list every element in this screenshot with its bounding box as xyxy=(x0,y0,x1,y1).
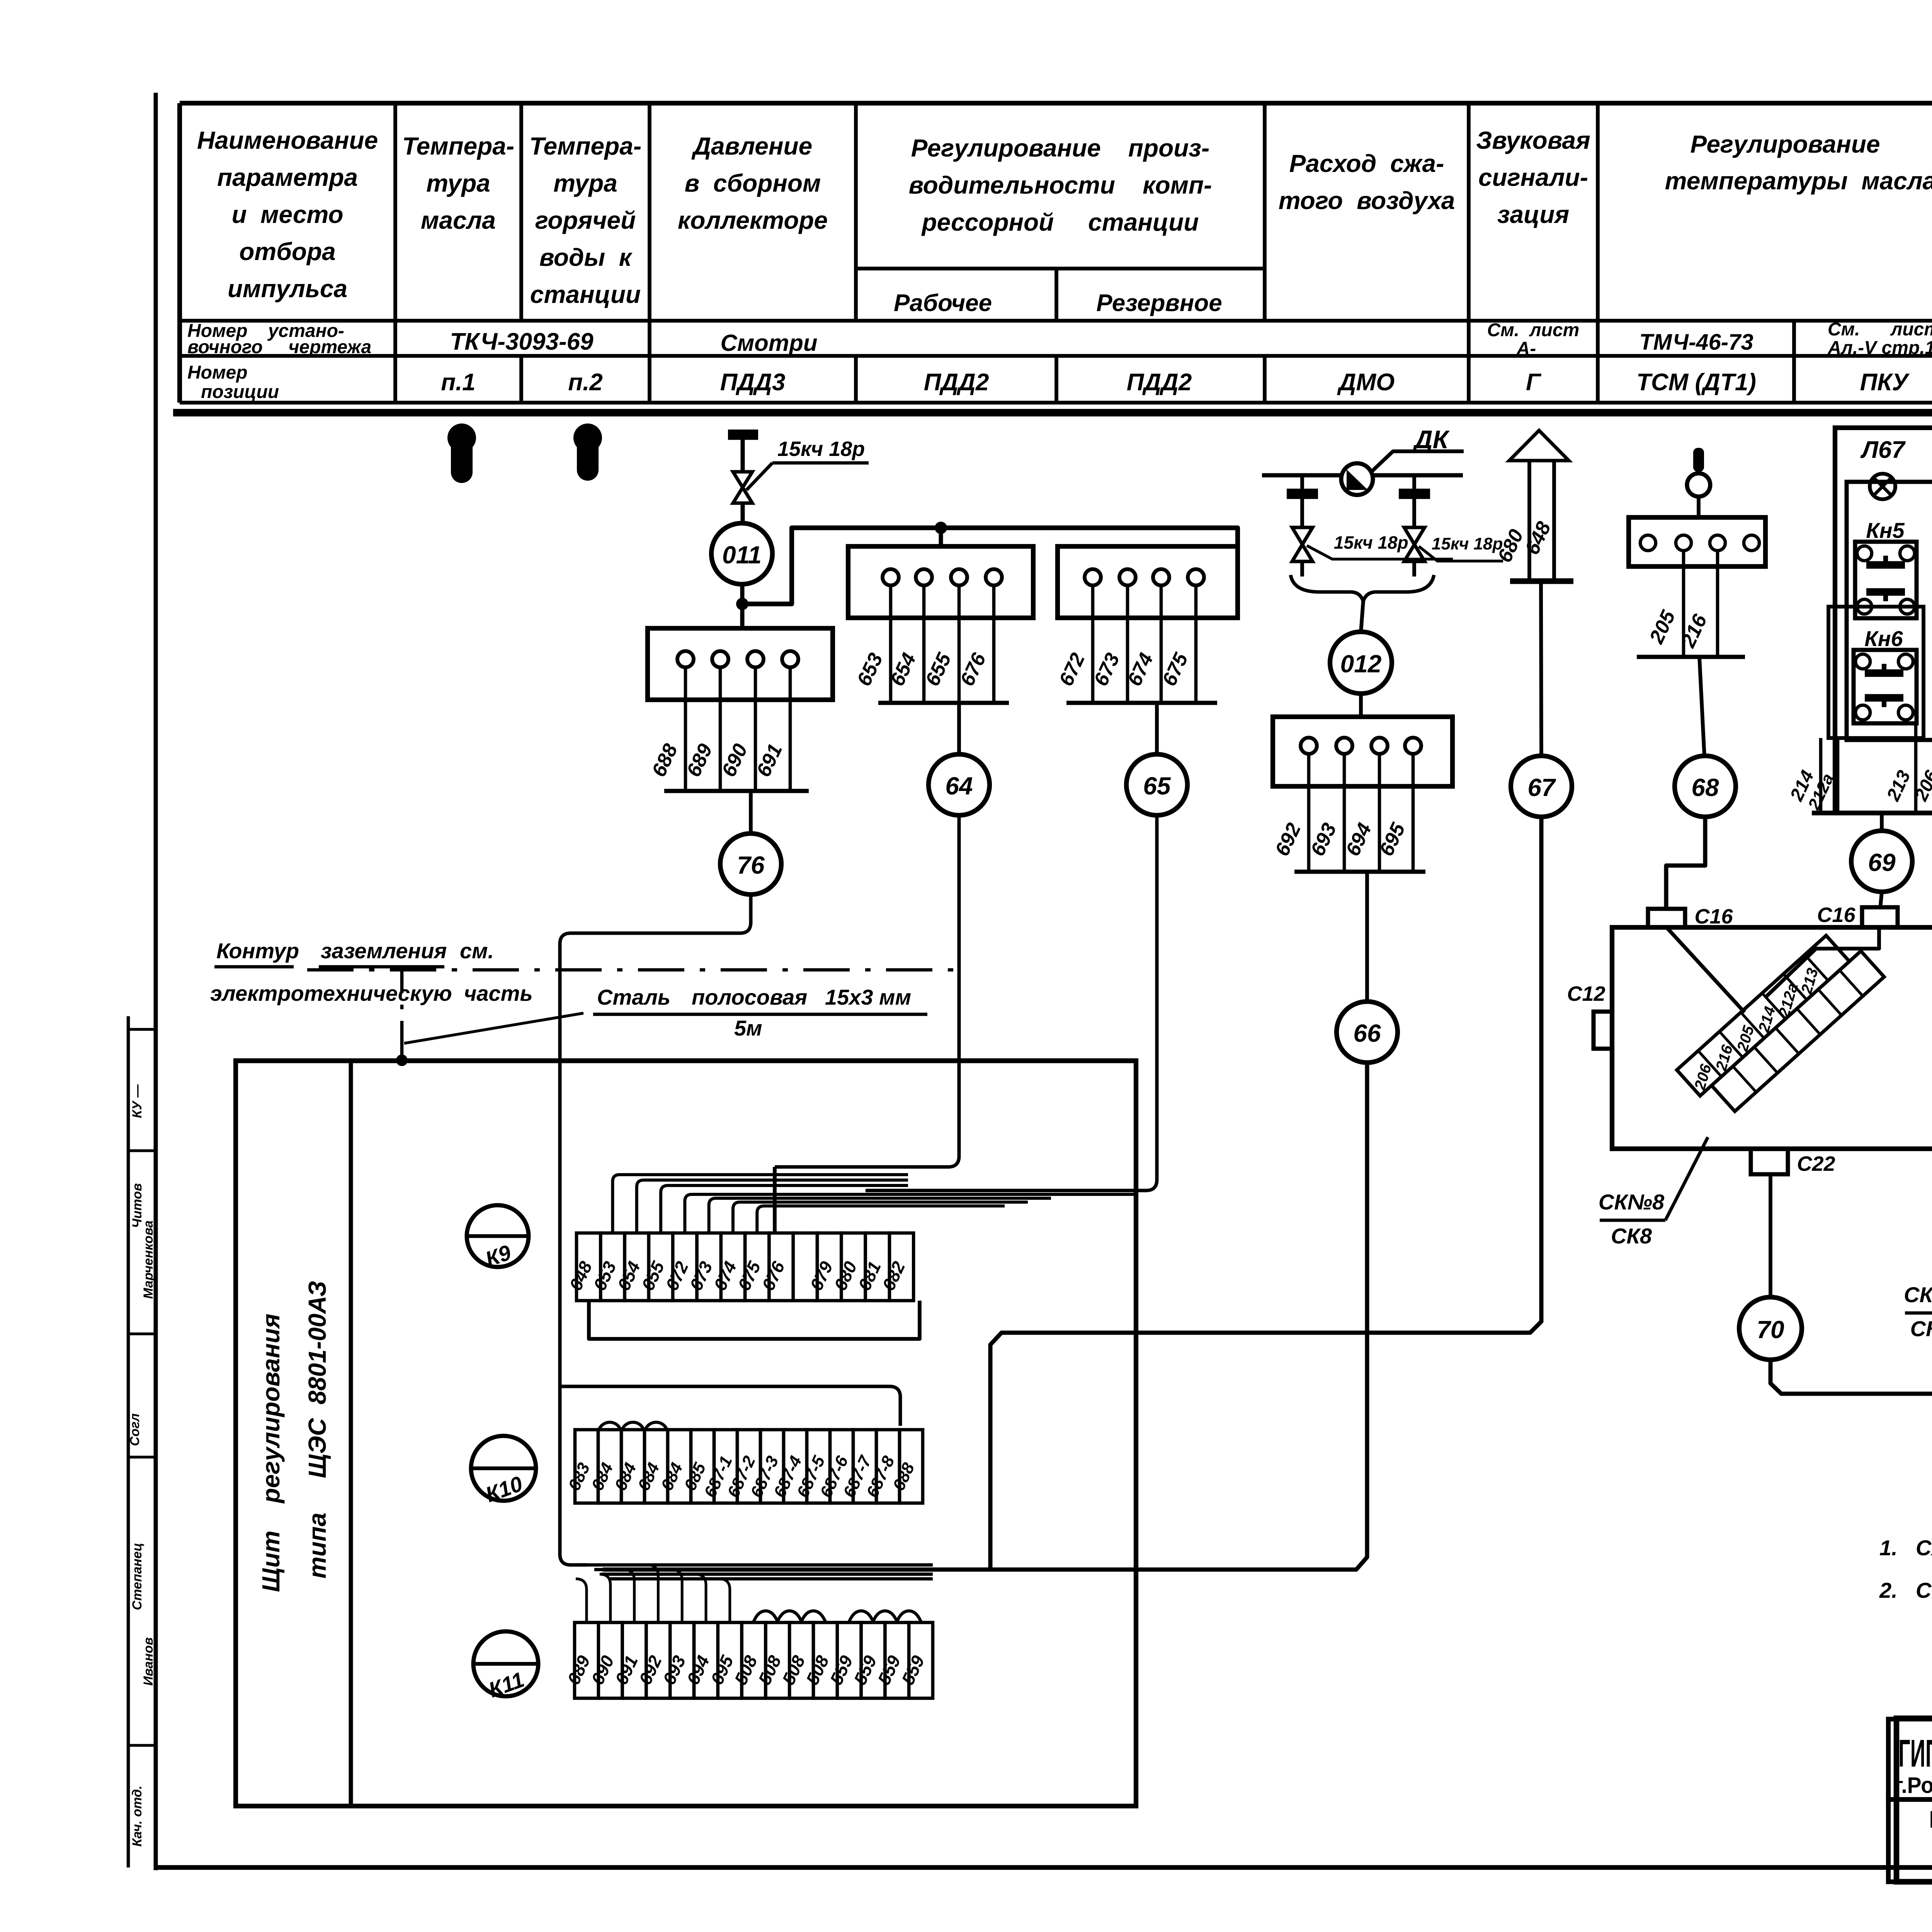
svg-text:15кч 18р: 15кч 18р xyxy=(1432,534,1503,553)
svg-text:Кн5: Кн5 xyxy=(1866,518,1905,543)
ground dash-dot line xyxy=(307,968,954,972)
table heavy bottom line xyxy=(173,409,1932,417)
sheet border left xyxy=(154,93,158,1870)
terminal cell 687-7 xyxy=(853,1430,876,1503)
svg-text:коллекторе: коллекторе xyxy=(678,206,828,234)
svg-text:2.: 2. xyxy=(1879,1578,1898,1602)
parameter table grid xyxy=(180,101,1932,105)
instrument circle 012 xyxy=(1330,632,1392,694)
bus under 688 box xyxy=(664,789,809,793)
svg-text:п.1: п.1 xyxy=(441,369,476,396)
instrument circle К9 xyxy=(467,1205,529,1267)
svg-text:68: 68 xyxy=(1691,774,1719,801)
wire bus to 65 xyxy=(1155,703,1159,754)
wire drop into cell 676 xyxy=(773,1167,777,1233)
svg-text:ДМО: ДМО xyxy=(1337,369,1395,396)
terminal pin xyxy=(986,569,1002,585)
wire bus to 76 xyxy=(749,791,753,833)
svg-text:параметра: параметра xyxy=(217,163,358,191)
title col1 inner box top xyxy=(1888,1719,1932,1799)
terminal cell 689 xyxy=(575,1622,599,1698)
wire dot to box 653 xyxy=(939,528,943,546)
svg-text:Расход сжа-: Расход сжа- xyxy=(1289,150,1444,177)
terminal pin xyxy=(1301,738,1317,754)
jumper arcs over 508/559 cells xyxy=(753,1611,778,1622)
svg-text:полосовая: полосовая xyxy=(692,985,807,1009)
table grid line xyxy=(393,103,397,403)
svg-text:Марченкова: Марченкова xyxy=(141,1221,156,1299)
instrument circle 011 xyxy=(711,523,772,584)
terminal pin xyxy=(1371,738,1388,754)
terminal cell 683 xyxy=(575,1430,598,1503)
svg-text:тура: тура xyxy=(553,169,617,197)
button block Кн6 xyxy=(1854,650,1917,723)
svg-text:64: 64 xyxy=(945,772,973,800)
instrument circle К11 xyxy=(473,1631,538,1696)
vent mast arrow head xyxy=(1509,430,1569,461)
svg-text:ПДД2: ПДД2 xyxy=(1127,369,1192,396)
instrument circle 76 xyxy=(720,833,781,895)
wire valve to 011 xyxy=(741,503,745,524)
terminal cell 508 xyxy=(813,1622,837,1698)
svg-text:Схема выполнена на лис: Схема выполнена на листах А-94, xyxy=(1916,1536,1932,1560)
svg-text:зация: зация xyxy=(1497,201,1569,228)
svg-text:См. лист: См. лист xyxy=(1487,320,1580,340)
instrument circle 67 xyxy=(1511,756,1572,817)
svg-text:Смотри: Смотри xyxy=(720,330,817,356)
terminal cell 684 xyxy=(598,1430,621,1503)
svg-text:ПДД3: ПДД3 xyxy=(720,369,786,396)
terminal pin xyxy=(883,569,899,585)
flow meter DK circle xyxy=(1341,463,1373,495)
terminal pin xyxy=(677,651,694,667)
svg-text:воды к: воды к xyxy=(539,243,633,271)
terminal cell 687-1 xyxy=(714,1430,737,1503)
wire 64 down then left xyxy=(775,815,959,1167)
wire bus to 64 xyxy=(957,703,961,754)
svg-text:5м: 5м xyxy=(734,1016,762,1040)
terminal pin small xyxy=(1676,535,1691,551)
wire 66 down to K11 bundle xyxy=(603,1063,1367,1570)
wire to 68 xyxy=(1699,657,1704,756)
terminal cell 559 xyxy=(909,1622,933,1698)
terminal pin small xyxy=(1640,535,1656,551)
bus under sensor box xyxy=(1637,655,1745,659)
wire staircase above K9 group B (672-675) xyxy=(685,1194,1136,1233)
svg-text:СК №9: СК №9 xyxy=(1904,1282,1932,1307)
stub C16 left xyxy=(1648,909,1685,927)
stub C22 bottom xyxy=(1751,1149,1788,1174)
valve V1 tee cap xyxy=(728,430,758,440)
svg-text:заземления: заземления xyxy=(321,939,447,963)
valve V3 tee cap xyxy=(1412,475,1416,490)
instrument circle 68 xyxy=(1675,756,1736,817)
terminal cell 674 xyxy=(721,1233,745,1301)
terminal box 688-691 xyxy=(648,628,833,700)
svg-text:С16: С16 xyxy=(1694,905,1733,928)
junction dot ground xyxy=(396,1054,408,1066)
table grid line xyxy=(1054,269,1058,321)
curly bracket xyxy=(1291,575,1434,601)
svg-text:Темпера-: Темпера- xyxy=(529,132,641,160)
panel inner divider xyxy=(349,1061,353,1806)
bus under 653 box xyxy=(878,701,1009,705)
svg-text:СК8: СК8 xyxy=(1611,1224,1652,1248)
svg-text:того воздуха: того воздуха xyxy=(1279,187,1455,214)
svg-text:66: 66 xyxy=(1353,1019,1381,1047)
wire hook under K9 xyxy=(589,1301,920,1339)
wire 011 down xyxy=(740,584,745,628)
svg-text:см.: см. xyxy=(460,939,494,963)
terminal pin small xyxy=(1710,535,1725,551)
wire bundle above K11 xyxy=(587,1563,933,1567)
svg-text:1.: 1. xyxy=(1879,1536,1898,1560)
terminal box 672-675 xyxy=(1058,546,1238,618)
wire 69 to C16 xyxy=(1880,892,1882,909)
svg-text:Регулирование: Регулирование xyxy=(1690,130,1880,158)
margin stamp column line xyxy=(127,1016,130,1867)
svg-text:в сборном: в сборном xyxy=(685,169,821,197)
vent mast base bar xyxy=(1510,578,1573,584)
wire inside from C16 right xyxy=(1766,927,1879,997)
svg-text:ДК: ДК xyxy=(1412,425,1450,454)
wire bus to 66 xyxy=(1365,872,1369,1002)
terminal pin xyxy=(747,651,764,667)
terminal pin xyxy=(1153,569,1169,585)
svg-text:Сталь: Сталь xyxy=(597,985,670,1009)
margin stamp tick xyxy=(128,1028,156,1031)
svg-text:СК№8: СК№8 xyxy=(1599,1190,1665,1214)
table grid line xyxy=(854,356,858,403)
wrapping box around buttons xyxy=(1828,607,1923,738)
svg-text:Л67: Л67 xyxy=(1860,437,1906,463)
table grid line xyxy=(648,103,651,403)
instrument circle 69 xyxy=(1851,831,1912,892)
wires to bottom bus xyxy=(1819,738,1823,813)
svg-text:СК 16: СК 16 xyxy=(1910,1316,1932,1341)
wire staircase above K9 group A (653-655) xyxy=(612,1175,908,1233)
terminal cell 688 xyxy=(900,1430,923,1503)
valve V2 bowtie xyxy=(1292,527,1313,561)
margin stamp tick xyxy=(128,1332,156,1335)
svg-text:электротехническую часть: электротехническую часть xyxy=(210,981,533,1005)
svg-text:67: 67 xyxy=(1527,774,1556,801)
terminal cell 653 xyxy=(600,1233,624,1301)
terminal cell 685 xyxy=(691,1430,714,1503)
wire to 69 xyxy=(1880,813,1884,831)
wire valves down xyxy=(1300,561,1304,577)
button block Кн5 xyxy=(1855,542,1917,618)
wire mast to 67 xyxy=(1541,581,1541,756)
terminal cell 687-3 xyxy=(760,1430,784,1503)
svg-text:станции: станции xyxy=(530,281,641,308)
terminal cell 693 xyxy=(670,1622,694,1698)
table grid line xyxy=(1054,356,1058,403)
table grid line xyxy=(1263,356,1267,403)
wire 65 down then left xyxy=(866,815,1157,1190)
terminal pin xyxy=(782,651,798,667)
sheet border bottom xyxy=(156,1865,1932,1870)
junction dot xyxy=(736,598,748,610)
svg-text:Кн6: Кн6 xyxy=(1864,626,1903,651)
terminal cell 680 xyxy=(841,1233,865,1301)
stub C12 left xyxy=(1594,1012,1612,1049)
table grid line xyxy=(1467,103,1471,403)
svg-text:Иванов: Иванов xyxy=(141,1637,156,1685)
ground long wire along panel top xyxy=(237,1059,1136,1063)
terminal pin xyxy=(1188,569,1204,585)
svg-text:Давление: Давление xyxy=(691,132,812,160)
svg-text:Г: Г xyxy=(1526,369,1542,396)
terminal pin xyxy=(1085,569,1101,585)
svg-text:70: 70 xyxy=(1757,1316,1784,1344)
terminal cell 559 xyxy=(885,1622,909,1698)
table grid line xyxy=(1263,103,1267,321)
svg-text:С16: С16 xyxy=(1817,903,1855,927)
svg-text:горячей: горячей xyxy=(535,206,636,234)
thermo sensor symbol xyxy=(1693,448,1704,472)
svg-text:Номер: Номер xyxy=(187,362,248,383)
terminal pin xyxy=(1119,569,1136,585)
svg-text:011: 011 xyxy=(722,541,762,569)
svg-text:водительности комп-: водительности комп- xyxy=(909,171,1212,199)
sensor pin p.1 (keyhole) xyxy=(447,423,476,452)
svg-text:импульса: импульса xyxy=(228,275,347,303)
svg-text:ПДД2: ПДД2 xyxy=(924,369,989,396)
table grid line xyxy=(177,103,182,403)
instrument circle 64 xyxy=(929,754,990,815)
wire inside from C16 left (diagonal) xyxy=(1667,927,1745,1012)
terminal cell 682 xyxy=(889,1233,913,1301)
svg-text:ТСМ (ДТ1): ТСМ (ДТ1) xyxy=(1636,369,1756,396)
wire C22 to 70 xyxy=(1769,1174,1772,1298)
pipe line right xyxy=(1372,473,1463,478)
margin stamp tick xyxy=(128,1744,156,1747)
svg-text:Кач. отд.: Кач. отд. xyxy=(130,1786,145,1847)
svg-text:Ал.-V стр.122: Ал.-V стр.122 xyxy=(1827,338,1932,358)
svg-text:ТМЧ-46-73: ТМЧ-46-73 xyxy=(1639,330,1753,355)
stub C16 right xyxy=(1862,907,1898,927)
svg-text:позиции: позиции xyxy=(201,382,279,402)
wire 68 to C16 stub xyxy=(1666,817,1705,909)
inner box xyxy=(1847,482,1932,740)
terminal cell 679 xyxy=(817,1233,841,1301)
instrument circle К10 xyxy=(471,1436,536,1501)
terminal cell 655 xyxy=(649,1233,673,1301)
bus under 672 box xyxy=(1066,701,1217,705)
svg-text:А-: А- xyxy=(1516,338,1536,359)
terminal cell 687-2 xyxy=(737,1430,760,1503)
terminal cell 508 xyxy=(742,1622,766,1698)
terminal cell 687-4 xyxy=(784,1430,807,1503)
wire branch right-up from 011 xyxy=(742,528,1238,604)
svg-text:КУ —: КУ — xyxy=(130,1084,145,1118)
svg-text:С22: С22 xyxy=(1797,1152,1835,1175)
terminal cell 687-5 xyxy=(807,1430,830,1503)
svg-text:Спецификацию см. лист А-: Спецификацию см. лист А- xyxy=(1916,1578,1932,1602)
junction dot on bus xyxy=(935,522,947,534)
terminal cell 508 xyxy=(789,1622,813,1698)
terminal cell 687-8 xyxy=(876,1430,900,1503)
svg-text:КОМПРЕССОРНАЯ: КОМПРЕССОРНАЯ xyxy=(1929,1806,1932,1833)
table grid line xyxy=(1792,321,1796,403)
svg-text:Контур: Контур xyxy=(216,939,299,963)
wire bracket to 012 xyxy=(1361,601,1363,632)
terminal cell 694 xyxy=(694,1622,718,1698)
instrument circle 65 xyxy=(1126,754,1187,815)
panel box Щит регулирования xyxy=(236,1061,1136,1806)
svg-text:температуры масла: температуры масла xyxy=(1665,167,1932,195)
svg-text:Согл: Согл xyxy=(128,1413,142,1446)
svg-text:рессорной станции: рессорной станции xyxy=(921,208,1199,236)
svg-text:ГИПРОСТРОЙДОРМАШ: ГИПРОСТРОЙДОРМАШ xyxy=(1898,1731,1932,1775)
margin stamp tick xyxy=(128,1456,156,1458)
valve V2 tee cap xyxy=(1300,475,1304,490)
terminal cell 559 xyxy=(861,1622,885,1698)
sensor pin p.2 (keyhole) xyxy=(573,423,602,452)
svg-text:п.2: п.2 xyxy=(568,369,603,396)
title col1 lower box xyxy=(1888,1799,1932,1882)
junction box СК№8 xyxy=(1612,927,1932,1149)
svg-text:15кч 18р: 15кч 18р xyxy=(777,437,865,461)
svg-text:012: 012 xyxy=(1340,650,1382,678)
svg-text:Темпера-: Темпера- xyxy=(402,132,514,160)
wire branch to K10 bus xyxy=(560,1386,900,1426)
lamp symbol xyxy=(1870,474,1895,499)
terminal cell 684 xyxy=(668,1430,691,1503)
svg-text:Звуковая: Звуковая xyxy=(1476,126,1590,154)
terminal pin xyxy=(951,569,967,585)
table grid line xyxy=(519,356,523,403)
svg-text:г.Ростов-на-Дону 1976 г.: г.Ростов-на-Дону 1976 г. xyxy=(1895,1773,1932,1798)
svg-text:С12: С12 xyxy=(1567,982,1605,1005)
margin stamp tick xyxy=(128,1149,156,1152)
pipe line left xyxy=(1262,473,1341,478)
vent mast shaft xyxy=(1527,461,1531,581)
instrument circle 66 xyxy=(1337,1002,1398,1063)
svg-text:69: 69 xyxy=(1868,849,1896,876)
svg-text:ТКЧ-3093-69: ТКЧ-3093-69 xyxy=(450,328,594,355)
svg-text:15х3 мм: 15х3 мм xyxy=(825,985,911,1009)
terminal pin xyxy=(1405,738,1421,754)
instrument circle 70 xyxy=(1739,1297,1802,1360)
wire 70 to CK9 C22 xyxy=(1770,1340,1932,1394)
terminal cell 687-6 xyxy=(830,1430,853,1503)
vertical dash-dot xyxy=(400,970,404,1051)
svg-text:См. лист: См. лист xyxy=(1828,319,1932,340)
leader to steel strip xyxy=(404,1013,583,1043)
svg-text:15кч 18р: 15кч 18р xyxy=(1334,532,1408,553)
terminal cell 690 xyxy=(599,1622,622,1698)
svg-text:Щит регулирования: Щит регулирования xyxy=(257,1314,285,1592)
terminal pin xyxy=(1336,738,1352,754)
terminal cell 692 xyxy=(646,1622,670,1698)
wire 67 down to bus xyxy=(990,817,1541,1570)
jumper arcs over 684 cells xyxy=(599,1422,621,1430)
terminal cell 675 xyxy=(745,1233,769,1301)
terminal box 692-695 xyxy=(1273,717,1452,786)
terminal cell 681 xyxy=(866,1233,889,1301)
wire 76 down-left-down xyxy=(560,895,751,1565)
terminal pin xyxy=(712,651,728,667)
svg-text:сигнали-: сигнали- xyxy=(1478,163,1588,191)
terminal cell 684 xyxy=(645,1430,668,1503)
terminal cell 508 xyxy=(765,1622,789,1698)
terminal box under sensor xyxy=(1629,517,1765,566)
valve V3 bowtie xyxy=(1404,527,1425,561)
wire drops into K11 cells 689-695 xyxy=(576,1579,587,1622)
svg-text:65: 65 xyxy=(1143,772,1171,800)
svg-text:ПКУ: ПКУ xyxy=(1860,369,1910,396)
svg-text:масла: масла xyxy=(421,206,496,234)
svg-text:Резервное: Резервное xyxy=(1096,290,1222,316)
terminal cell 559 xyxy=(837,1622,861,1698)
svg-text:Наименование: Наименование xyxy=(197,126,378,154)
terminal cell 684 xyxy=(621,1430,645,1503)
terminal cell 695 xyxy=(718,1622,742,1698)
svg-text:типа ЩЭС 8801-00АЗ: типа ЩЭС 8801-00АЗ xyxy=(303,1281,331,1578)
svg-text:тура: тура xyxy=(426,169,490,197)
terminal cell 648 xyxy=(577,1233,600,1301)
svg-text:и место: и место xyxy=(231,201,343,228)
title block outer xyxy=(1896,1718,1932,1882)
svg-text:Степанец: Степанец xyxy=(130,1543,145,1610)
terminal cell 654 xyxy=(625,1233,649,1301)
bus under Л67 xyxy=(1812,811,1932,815)
svg-text:вочного чертежа: вочного чертежа xyxy=(187,337,371,357)
rotated terminal strip in СК8 xyxy=(1676,925,1884,1122)
table grid line xyxy=(1596,103,1600,403)
terminal box 653-676 xyxy=(848,546,1033,618)
terminal pin xyxy=(916,569,932,585)
table grid line xyxy=(854,103,858,321)
wire 012 down xyxy=(1359,694,1363,716)
svg-text:Рабочее: Рабочее xyxy=(894,290,992,316)
bus under 692 box xyxy=(1294,870,1425,874)
svg-text:отбора: отбора xyxy=(239,238,335,265)
svg-text:76: 76 xyxy=(737,851,765,879)
terminal cell 672 xyxy=(673,1233,697,1301)
terminal pin small xyxy=(1744,535,1759,551)
device box Л67 xyxy=(1835,428,1932,813)
terminal cell 676 xyxy=(769,1233,793,1301)
valve V1 (bowtie) xyxy=(733,472,752,503)
table grid line xyxy=(519,103,523,321)
terminal cell 673 xyxy=(697,1233,721,1301)
terminal cell 691 xyxy=(622,1622,646,1698)
svg-text:Регулирование произ-: Регулирование произ- xyxy=(911,134,1210,162)
terminal cell blank xyxy=(793,1233,817,1301)
